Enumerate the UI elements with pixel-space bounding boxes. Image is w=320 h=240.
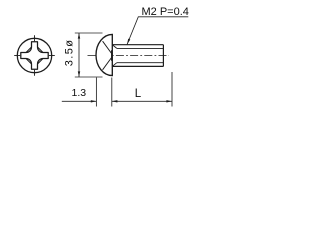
svg-text:3.5ø: 3.5ø: [64, 39, 76, 67]
recess cone lower line: [103, 58, 112, 70]
side view: round head outline: [96, 34, 112, 75]
dim 1.3 left tail line: [62, 100, 97, 102]
svg-text:M2 P=0.4: M2 P=0.4: [142, 6, 189, 18]
dim L dimension line: [112, 100, 172, 102]
shaft end line: [162, 45, 164, 67]
centerline tick top: [34, 35, 36, 41]
recess inner diamond line SW: [26, 59, 32, 65]
leader line for M2 P=0.4: [127, 17, 188, 45]
centerline tick right: [49, 55, 55, 57]
dim 1.3 right / dim L left extension line: [111, 78, 113, 107]
dim 3.5 bottom extension line: [75, 76, 103, 78]
svg-text:L: L: [135, 88, 142, 100]
dim L right extension line: [171, 72, 173, 107]
phillips cross recess outline: [21, 42, 48, 69]
dim 3.5 top extension line: [75, 32, 103, 34]
recess cone upper line: [103, 41, 112, 53]
arrow dim1.3 pointing right: [91, 100, 97, 102]
svg-text:1.3: 1.3: [71, 87, 86, 99]
arrow dimL pointing right: [166, 100, 172, 102]
centerline tick bottom: [34, 70, 36, 76]
recess inner diamond line NE: [38, 47, 44, 53]
side view: center axis dash-dot line: [88, 54, 170, 56]
thread root top line: [117, 47, 164, 49]
centerline tick left: [14, 55, 20, 57]
dim 3.5 dimension line: [78, 33, 80, 77]
shaft outer bottom line: [112, 65, 163, 67]
shaft outer top line: [112, 44, 163, 46]
recess inner diamond line SE: [38, 59, 44, 65]
arrow dim3.5 up: [78, 33, 80, 39]
front view: screw head circle: [17, 38, 51, 72]
dim 1.3 left extension line: [95, 78, 97, 107]
thread runout bottom diagonal: [113, 63, 117, 66]
arrow dim3.5 down: [78, 71, 80, 77]
arrow dim1.3/L pointing left: [112, 100, 118, 102]
thread root bottom line: [117, 62, 164, 64]
leader arrowhead: [127, 39, 130, 45]
recess bottom vertical line: [111, 50, 113, 61]
recess inner diamond line NW: [26, 47, 32, 53]
thread runout top diagonal: [113, 45, 117, 49]
